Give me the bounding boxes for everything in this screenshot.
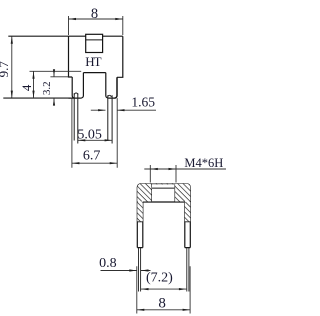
svg-text:9.7: 9.7 [0,61,11,78]
svg-text:1.65: 1.65 [131,95,155,110]
svg-text:8: 8 [91,6,98,22]
svg-text:M4*6H: M4*6H [184,156,223,170]
svg-text:3.2: 3.2 [41,81,53,95]
svg-text:0.8: 0.8 [99,256,117,271]
svg-text:HT: HT [85,54,101,69]
svg-text:8: 8 [158,295,166,311]
svg-text:6.7: 6.7 [83,149,101,164]
svg-text:(7.2): (7.2) [146,271,173,286]
svg-text:4: 4 [19,84,34,91]
svg-text:5.05: 5.05 [77,127,102,142]
